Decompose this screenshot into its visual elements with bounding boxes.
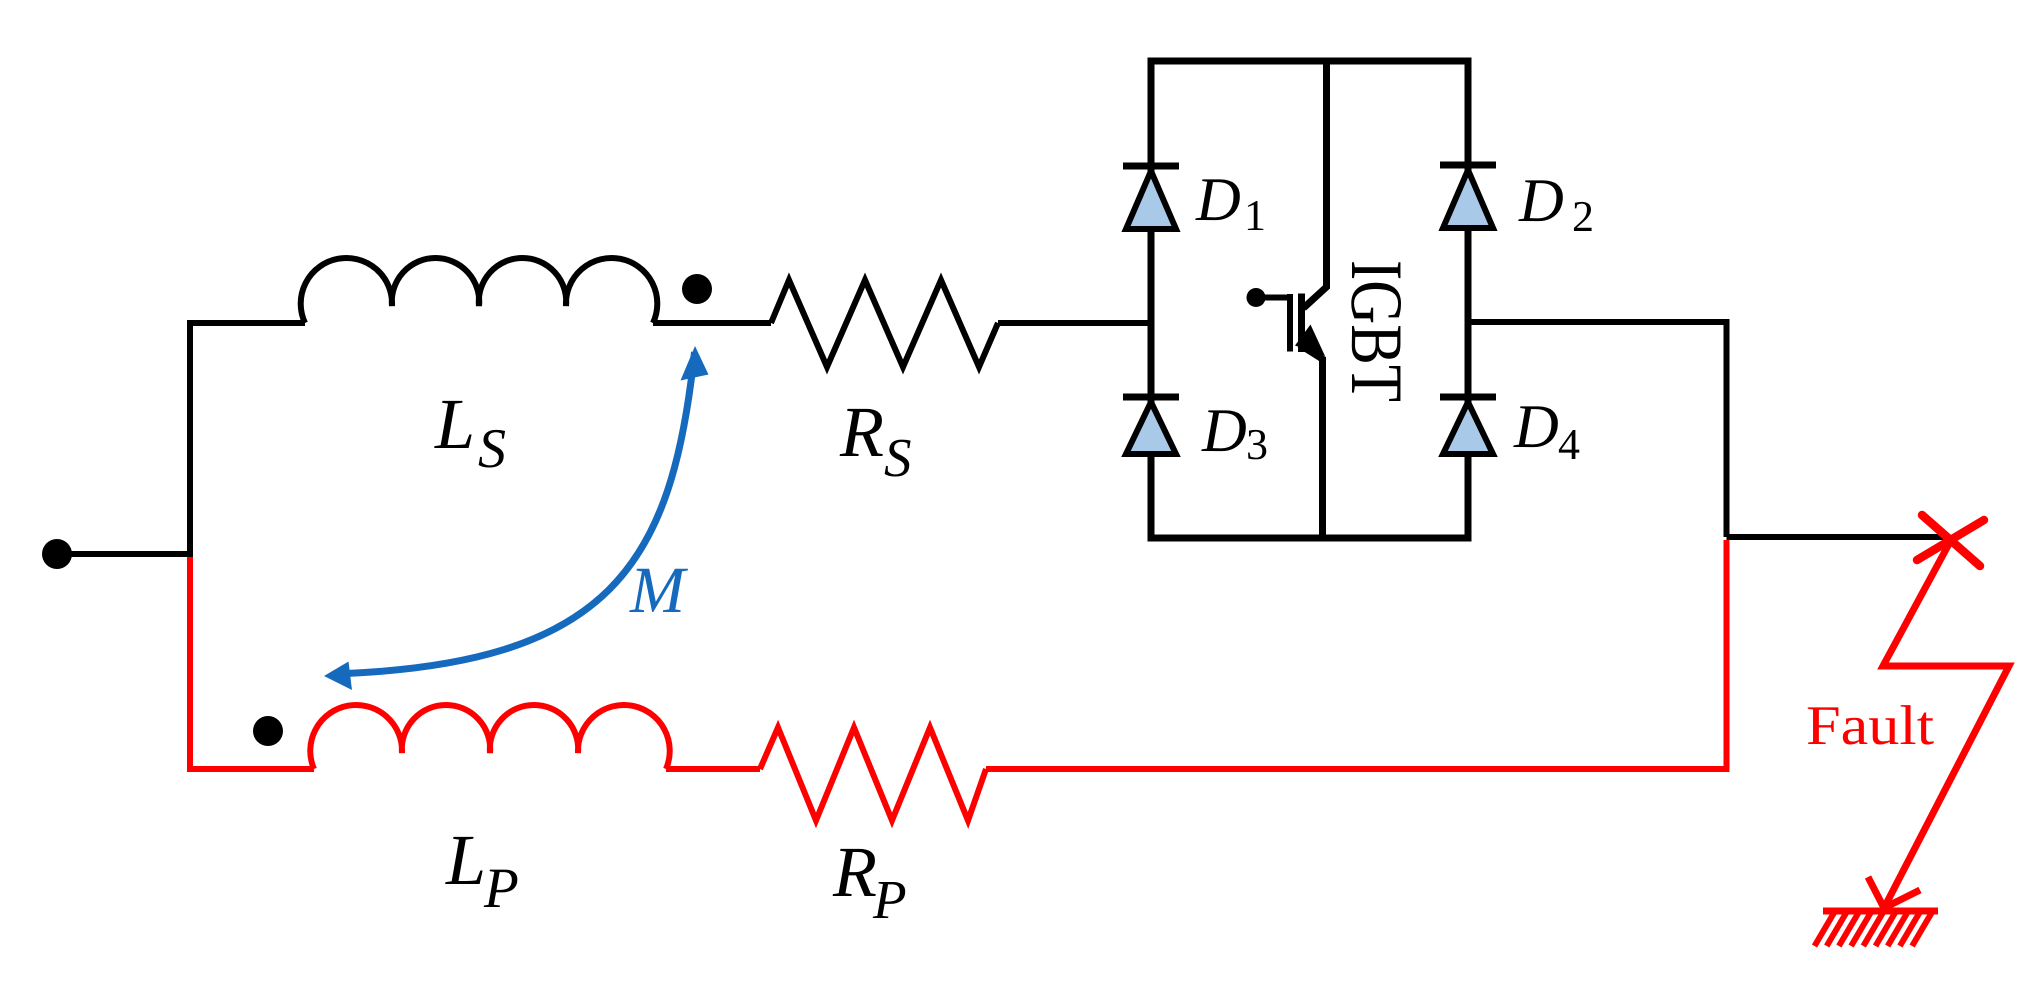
wire red bottom left <box>187 766 314 772</box>
wire LS to RS <box>653 320 771 326</box>
resistor RS <box>771 280 998 367</box>
gate wire <box>1256 295 1287 301</box>
wire red bottom right <box>986 766 1727 772</box>
svg-text:S: S <box>478 418 506 480</box>
collector lead <box>1304 58 1327 308</box>
svg-text:P: P <box>483 857 519 920</box>
coupling arrowhead left <box>324 662 352 691</box>
emitter arrow <box>1295 325 1325 357</box>
resistor RP <box>760 728 986 821</box>
transistor IGBT <box>1247 58 1327 541</box>
wire red left vertical <box>187 552 193 769</box>
svg-text:L: L <box>434 384 475 464</box>
mutual coupling arrow M curve <box>333 352 695 674</box>
svg-text:3: 3 <box>1246 420 1268 469</box>
gate node dot <box>1247 288 1266 307</box>
svg-text:S: S <box>884 427 912 488</box>
wire input <box>57 551 193 557</box>
node dot LS <box>682 274 712 304</box>
wire bridge output <box>1468 322 1727 537</box>
svg-text:M: M <box>629 554 689 627</box>
ground hatching <box>1815 912 1933 946</box>
coupling arrowhead top <box>681 346 709 381</box>
diode D2 <box>1440 165 1496 228</box>
bridge frame <box>1151 61 1468 538</box>
ground bar <box>1823 908 1938 915</box>
wire red right vertical <box>1724 540 1730 772</box>
inductor LS <box>301 258 658 323</box>
svg-text:R: R <box>832 832 877 912</box>
diode D3 <box>1123 397 1179 454</box>
emitter lead <box>1304 347 1323 541</box>
wire RS to bridge <box>998 320 1154 326</box>
gate bar <box>1287 294 1293 352</box>
svg-text:Fault: Fault <box>1806 695 1934 757</box>
svg-text:D: D <box>1201 397 1247 465</box>
node dot LP <box>253 716 283 746</box>
diode D1 <box>1123 166 1179 229</box>
svg-text:R: R <box>839 392 884 472</box>
svg-text:2: 2 <box>1572 192 1594 241</box>
svg-text:1: 1 <box>1244 191 1266 240</box>
svg-text:D: D <box>1195 166 1241 234</box>
wire to fault X <box>1727 534 1950 540</box>
terminal dot left <box>42 539 72 569</box>
svg-text:L: L <box>445 820 486 900</box>
svg-text:D: D <box>1518 167 1564 235</box>
fault arrowhead <box>1868 877 1920 908</box>
fault X mark <box>1917 515 1984 566</box>
svg-text:P: P <box>872 869 907 930</box>
diode D4 <box>1440 397 1496 454</box>
wire red LP to RP <box>666 766 760 772</box>
wire black left vertical <box>190 323 305 554</box>
body bar <box>1298 294 1305 353</box>
svg-text:4: 4 <box>1558 420 1580 469</box>
svg-text:IGBT: IGBT <box>1335 260 1417 402</box>
svg-text:D: D <box>1513 393 1559 461</box>
fault lightning <box>1883 542 2009 908</box>
inductor LP <box>310 705 669 769</box>
